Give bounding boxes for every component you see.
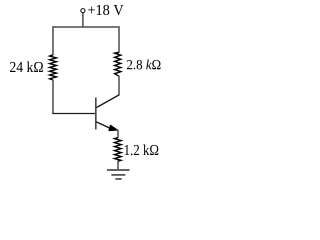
ground: [107, 170, 130, 179]
transistor Q1 emitter arrowhead: [109, 125, 119, 131]
supply label +18 V: [88, 5, 123, 15]
transistor Q1 base bar: [95, 98, 97, 130]
label 2.8 kOhm: [127, 60, 161, 70]
transistor Q1 emitter lead: [96, 122, 110, 128]
wire: R3 to ground: [117, 160, 119, 170]
wire: R1 bottom to base node: [52, 80, 54, 114]
label 24 kOhm: [10, 61, 43, 72]
wire: base wire horizontal: [52, 113, 96, 115]
wire: left branch down to R1: [52, 26, 54, 55]
resistor R2 2.8 kOhm zigzag: [115, 52, 121, 76]
wire: right branch down to R2: [118, 26, 120, 53]
wire: terminal down to top rail: [82, 13, 84, 27]
wire: R2 bottom to collector corner: [118, 76, 120, 95]
resistor R3 1.2 kOhm zigzag: [115, 138, 122, 162]
label 1.2 kOhm: [125, 144, 159, 155]
wire: top rail: [53, 26, 119, 28]
supply terminal circle: [81, 9, 85, 13]
transistor Q1 collector lead: [96, 95, 119, 108]
wire: emitter to R3: [117, 130, 119, 138]
resistor R1 24 kOhm zigzag: [50, 55, 57, 80]
